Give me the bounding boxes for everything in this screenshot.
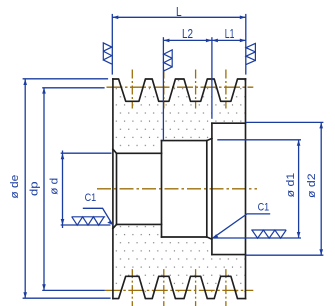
pitch line top bbox=[107, 86, 254, 88]
svg-text:C1: C1 bbox=[258, 202, 270, 214]
groove profile bottom bbox=[113, 276, 246, 298]
extension line L left bbox=[111, 14, 113, 75]
bore entry chamfer top bbox=[113, 149, 117, 153]
groove 1 centerline bottom bbox=[131, 269, 133, 306]
svg-text:L: L bbox=[176, 4, 182, 19]
extension d2 bottom bbox=[246, 254, 324, 256]
right face bbox=[245, 79, 247, 299]
dimension line L2 L1 bbox=[163, 39, 245, 41]
svg-text:ø de: ø de bbox=[9, 175, 21, 199]
groove 3 centerline top bbox=[195, 70, 197, 109]
arrow dp top bbox=[42, 88, 46, 94]
arrow d1 bottom bbox=[297, 232, 301, 238]
dimension line dp bbox=[43, 88, 45, 291]
svg-text:L1: L1 bbox=[225, 26, 235, 41]
bore d bottom edge bbox=[117, 223, 162, 225]
dimension line dia d2 bbox=[320, 122, 322, 255]
bore d1 top edge bbox=[162, 140, 207, 142]
arrow d2 bottom bbox=[319, 249, 323, 255]
arrow d top bbox=[61, 153, 65, 159]
dimension line dia de bbox=[24, 79, 26, 298]
recess d2 top edge bbox=[212, 122, 246, 124]
roughness symbol groove flank bbox=[164, 50, 173, 71]
roughness symbol right face bbox=[246, 43, 255, 64]
extension de bottom bbox=[23, 297, 111, 299]
extension line L right bbox=[245, 14, 247, 75]
arrow leader C1 left bbox=[107, 221, 112, 225]
groove 2 centerline top bbox=[163, 70, 165, 109]
groove 4 centerline top bbox=[225, 70, 227, 109]
extension dp top bbox=[42, 87, 104, 89]
bore entry chamfer bottom bbox=[113, 224, 117, 228]
roughness triangles row left bbox=[72, 217, 106, 225]
arrow d1 top bbox=[297, 140, 301, 146]
step d1/d2 bbox=[211, 123, 213, 254]
svg-text:ø d1: ø d1 bbox=[285, 173, 297, 198]
leader C1 right bbox=[213, 214, 271, 238]
arrow L1 left bbox=[212, 39, 218, 43]
svg-text:ø d2: ø d2 bbox=[306, 173, 318, 198]
arrow L right bbox=[240, 15, 246, 19]
pitch line bottom bbox=[105, 289, 254, 291]
extension d top bbox=[61, 152, 112, 154]
extension dp bottom bbox=[42, 289, 105, 291]
svg-text:C1: C1 bbox=[85, 192, 97, 204]
extension d1 top bbox=[217, 139, 301, 141]
extension d bottom bbox=[61, 224, 111, 226]
extension line L2 left bbox=[162, 37, 164, 140]
bore d chamfer edge bbox=[116, 153, 118, 224]
arrow L1 right bbox=[240, 39, 246, 43]
arrow d bottom bbox=[61, 219, 65, 225]
roughness symbol left face bbox=[103, 43, 112, 64]
extension de top bbox=[23, 78, 109, 80]
left face bbox=[112, 79, 114, 299]
arrow dp bottom bbox=[42, 284, 46, 290]
dimension line dia d bbox=[62, 151, 64, 229]
arrow de bottom bbox=[23, 292, 27, 298]
step d/d1 bbox=[161, 141, 163, 237]
bore d1 bottom edge bbox=[162, 236, 207, 238]
groove 4 centerline bottom bbox=[225, 269, 227, 306]
arrow L2 right bbox=[206, 39, 212, 43]
bore d top edge bbox=[117, 152, 162, 154]
arrow d2 top bbox=[319, 122, 323, 128]
d1 chamfer edge bbox=[206, 141, 208, 237]
groove 2 centerline bottom bbox=[163, 269, 165, 306]
extension d2 top bbox=[246, 121, 324, 123]
dimension line L bbox=[112, 16, 246, 18]
leader C1 left bbox=[83, 208, 113, 224]
extension line L2/L1 divider bbox=[211, 37, 213, 119]
svg-text:L2: L2 bbox=[182, 26, 193, 41]
main axis centerline bbox=[97, 188, 257, 190]
arrow de top bbox=[23, 79, 27, 85]
section fill lower rim/web bbox=[113, 224, 246, 298]
groove 3 centerline bottom bbox=[195, 269, 197, 306]
groove 1 centerline top bbox=[131, 70, 133, 109]
svg-text:dp: dp bbox=[29, 181, 41, 196]
recess d2 bottom edge bbox=[212, 254, 246, 256]
arrow leader C1 right bbox=[213, 234, 219, 238]
arrow L left bbox=[112, 15, 118, 19]
arrow L2 left bbox=[163, 39, 169, 43]
groove profile top bbox=[113, 79, 246, 101]
d1 chamfer top bbox=[207, 138, 212, 140]
dimension line dia d1 bbox=[298, 140, 300, 238]
d1 chamfer bottom bbox=[207, 237, 212, 239]
section fill upper rim/web bbox=[113, 79, 246, 153]
svg-text:ø d: ø d bbox=[49, 178, 61, 195]
extension d1 bottom bbox=[214, 237, 302, 239]
roughness triangles row right bbox=[251, 230, 286, 238]
